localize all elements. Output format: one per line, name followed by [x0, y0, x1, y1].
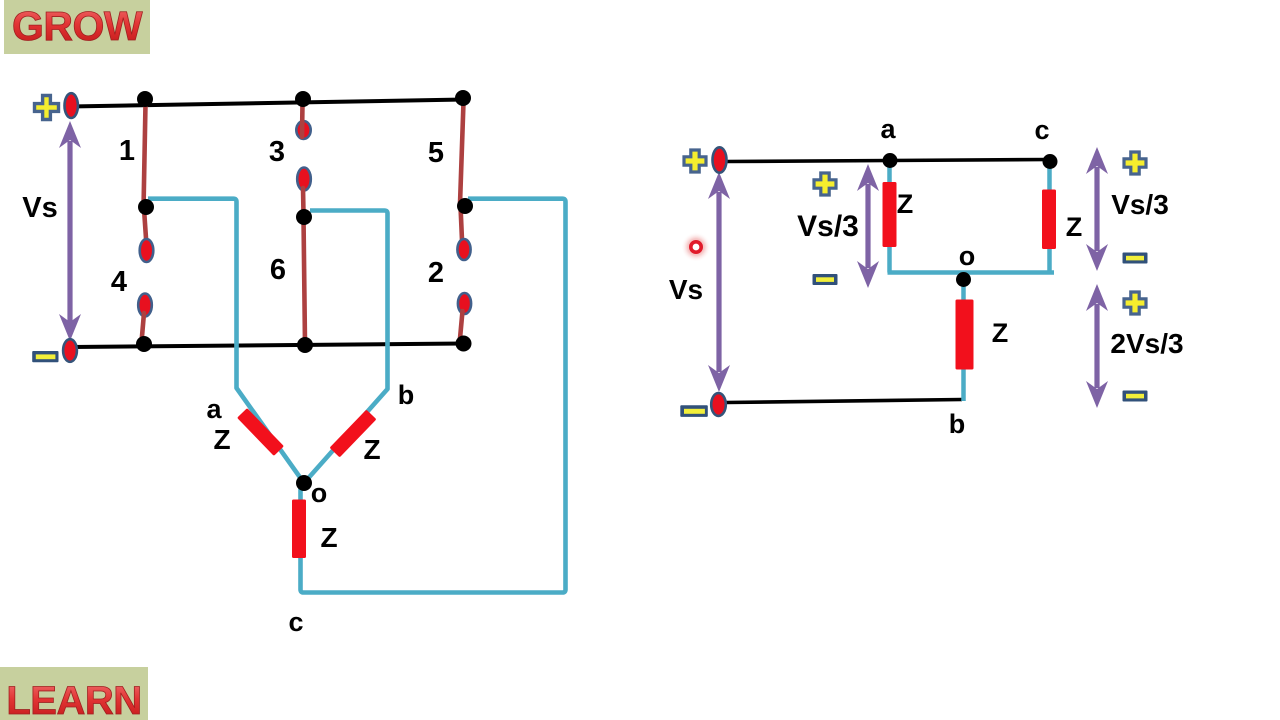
wire: bottom bus (right) — [726, 400, 962, 403]
svg-text:Z: Z — [213, 424, 230, 455]
switch S6 (closed) — [304, 217, 306, 344]
impedance Z phase c (right) — [1042, 190, 1056, 250]
plus annotation (right upper) — [1124, 152, 1146, 174]
minus terminal symbol (right source -) — [680, 405, 708, 417]
source terminal + (red ellipse, right top) — [713, 147, 727, 172]
svg-text:Vs/3: Vs/3 — [1111, 189, 1169, 220]
impedance Z phase a (right) — [883, 182, 897, 247]
Vs/3 arrow (right annotation upper) — [1086, 147, 1108, 271]
wire: phase-a blue wire from leg1 midpoint — [148, 199, 304, 483]
node: leg1 midpoint — [138, 199, 154, 215]
node c (right) — [1043, 154, 1058, 169]
node: bottom bus junction 2 — [456, 336, 472, 352]
Vs arrow (right) — [708, 172, 730, 392]
plus annotation (middle) — [814, 173, 836, 195]
source terminal - (red ellipse, left bottom) — [63, 339, 77, 362]
node: top bus junction 5 — [455, 90, 471, 106]
source terminal - (red ellipse, right bottom) — [711, 393, 726, 416]
switch S2 (open): stub, two contact ellipses, stub to bus — [457, 206, 471, 344]
svg-text:2: 2 — [428, 257, 444, 289]
svg-text:b: b — [949, 409, 966, 439]
svg-text:4: 4 — [111, 266, 127, 298]
node: bottom bus junction 4 — [136, 336, 152, 352]
switch S1 (closed) — [144, 104, 146, 209]
plus terminal symbol (left source +) — [35, 96, 59, 120]
impedance Z phase b (rotated red bar) — [330, 410, 377, 458]
svg-text:Vs: Vs — [669, 274, 703, 305]
svg-text:LEARN: LEARN — [6, 679, 141, 720]
svg-text:Z: Z — [320, 522, 337, 553]
svg-text:Z: Z — [897, 189, 914, 219]
switch S4 (open): stub, two contact ellipses, lower stub — [138, 209, 153, 348]
plus terminal symbol (right source +) — [684, 150, 706, 172]
node a (right) — [883, 153, 898, 168]
wire: phase-c blue loop from Z to leg5 midpoint — [301, 199, 566, 593]
node o (right) — [956, 272, 971, 287]
wire: phase-b blue wire from leg3 midpoint — [304, 211, 388, 484]
svg-text:a: a — [206, 394, 222, 424]
impedance Z phase c (vertical red bar) — [292, 500, 306, 559]
wire: top bus (right) — [726, 160, 1050, 162]
svg-text:Z: Z — [992, 318, 1009, 348]
node o (star point) — [296, 475, 312, 491]
svg-text:3: 3 — [269, 136, 285, 168]
LEARN logo — [0, 667, 148, 720]
node: bottom bus junction 6 — [297, 337, 313, 353]
svg-text:o: o — [959, 241, 976, 271]
svg-text:b: b — [398, 380, 415, 410]
switch S5 (closed) — [460, 102, 464, 204]
minus annotation (right upper) — [1123, 253, 1148, 264]
minus annotation (middle) — [813, 274, 838, 285]
wire: phase-b column blue — [961, 279, 966, 401]
svg-text:6: 6 — [270, 254, 286, 286]
svg-text:Z: Z — [363, 434, 380, 465]
svg-text:Vs: Vs — [22, 192, 57, 224]
red glow indicator — [681, 232, 711, 262]
Vs/3 arrow (middle annotation) — [857, 164, 879, 288]
switch S3 (open): stub through upper contact, lower contact, stub to node — [296, 103, 311, 214]
minus annotation (right lower) — [1123, 391, 1148, 402]
2Vs/3 arrow (right annotation lower) — [1086, 284, 1108, 408]
wire: phase-c column blue — [1047, 163, 1052, 273]
GROW logo — [4, 0, 150, 54]
svg-text:1: 1 — [119, 135, 135, 167]
node: leg3 midpoint — [296, 209, 312, 225]
svg-text:Z: Z — [1066, 212, 1083, 242]
impedance Z phase b (right) — [956, 300, 974, 370]
svg-text:o: o — [311, 478, 328, 508]
wire: top bus (left) — [70, 100, 464, 107]
svg-text:GROW: GROW — [12, 3, 143, 49]
impedance Z phase a (rotated red bar) — [237, 408, 284, 456]
svg-text:Vs/3: Vs/3 — [797, 210, 859, 243]
wire: phase-a column blue — [887, 162, 892, 273]
svg-text:a: a — [880, 114, 896, 144]
wire: bottom bus (left) — [72, 344, 463, 348]
node: leg5 midpoint — [457, 198, 473, 214]
node: top bus junction 3 — [295, 91, 311, 107]
plus annotation (right lower) — [1124, 292, 1146, 314]
wire: o bus blue — [888, 270, 1055, 275]
minus terminal symbol (left source -) — [32, 351, 58, 362]
Vs arrow (left) — [59, 121, 81, 341]
svg-text:c: c — [288, 607, 303, 637]
svg-text:2Vs/3: 2Vs/3 — [1110, 328, 1183, 359]
node: top bus junction 1 — [137, 91, 153, 107]
svg-text:5: 5 — [428, 137, 444, 169]
source terminal + (red ellipse, left top) — [65, 93, 78, 118]
svg-text:c: c — [1034, 115, 1049, 145]
